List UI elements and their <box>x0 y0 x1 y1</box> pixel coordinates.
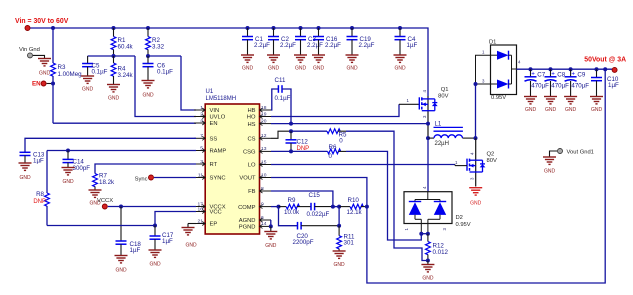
svg-text:GND: GND <box>334 262 346 268</box>
diode D2 0.95V <box>404 186 471 234</box>
svg-text:C9: C9 <box>577 72 585 79</box>
pin EP 21 of U1 <box>194 218 217 227</box>
svg-text:U1: U1 <box>206 89 214 95</box>
wire R3 to EN node <box>51 76 55 123</box>
ground R7 <box>89 190 102 207</box>
svg-text:+: + <box>551 70 555 77</box>
svg-text:470µF: 470µF <box>551 83 569 90</box>
ground C5 <box>81 76 94 93</box>
svg-text:GND: GND <box>142 93 154 99</box>
svg-text:14: 14 <box>261 221 267 227</box>
node VOUT R10 junction <box>365 205 369 209</box>
svg-text:2.2µF: 2.2µF <box>307 42 323 49</box>
svg-text:Vin Gnd: Vin Gnd <box>19 47 40 53</box>
svg-text:2.2µF: 2.2µF <box>325 42 341 49</box>
svg-text:D2: D2 <box>456 215 463 221</box>
svg-text:80V: 80V <box>487 158 497 164</box>
svg-text:GND: GND <box>313 66 325 72</box>
capacitor C14 300pF <box>63 151 91 172</box>
ground C17 <box>149 250 162 268</box>
capacitor C3 2.2µF <box>295 26 323 55</box>
capacitor C6 0.1uF <box>143 56 174 81</box>
capacitor C1 2.2µF <box>242 26 270 55</box>
svg-text:2.2µF: 2.2µF <box>254 42 270 49</box>
svg-text:1: 1 <box>200 105 203 111</box>
svg-text:GND: GND <box>185 243 197 249</box>
capacitor C2 2.2µF <box>268 26 296 55</box>
capacitor C7 470uF <box>525 67 550 96</box>
node FB COMP junction <box>331 205 341 209</box>
wire VCC net <box>155 212 196 226</box>
svg-text:8: 8 <box>261 186 264 192</box>
svg-text:GND: GND <box>346 66 358 72</box>
svg-text:3.32: 3.32 <box>152 44 165 51</box>
ground EP <box>182 228 197 249</box>
wire CS jog <box>271 129 293 138</box>
wire EP to ground <box>188 224 196 228</box>
svg-text:C15: C15 <box>309 192 321 199</box>
pin CSG 13 of U1 <box>243 146 271 155</box>
capacitor C17 1uF <box>150 226 174 251</box>
svg-text:470µF: 470µF <box>571 83 589 90</box>
wire Q2 gate lead <box>455 165 467 166</box>
svg-text:60.4k: 60.4k <box>118 44 134 51</box>
resistor R10 12.1k <box>339 197 367 216</box>
svg-text:2.2µF: 2.2µF <box>359 42 375 49</box>
wire LO to Q2 gate <box>271 164 455 166</box>
label Vin = 30V to 60V <box>15 18 69 25</box>
svg-text:AGND: AGND <box>239 218 256 224</box>
svg-text:GND: GND <box>565 107 577 113</box>
svg-text:0.012: 0.012 <box>433 249 449 256</box>
label VCCX <box>97 198 113 204</box>
wire VIN to pin 1 <box>181 56 196 110</box>
svg-text:GND: GND <box>149 262 161 268</box>
svg-text:+: + <box>571 70 575 77</box>
pin PGND 14 of U1 <box>239 221 271 230</box>
terminal EN <box>41 81 51 86</box>
pin EN 4 of U1 <box>194 118 218 127</box>
svg-text:2: 2 <box>200 111 203 117</box>
wire Vout Gnd1 to ground <box>550 151 558 157</box>
svg-text:4: 4 <box>200 118 203 124</box>
terminal Vin Gnd <box>19 47 40 58</box>
svg-text:18: 18 <box>261 105 267 111</box>
svg-text:GND: GND <box>265 243 277 249</box>
svg-text:1.00Meg: 1.00Meg <box>58 71 83 78</box>
svg-text:470µF: 470µF <box>531 83 549 90</box>
svg-text:R3: R3 <box>58 64 66 71</box>
ground C6 <box>142 81 155 99</box>
wire R8 to VCC junction <box>47 224 157 228</box>
capacitor C9 470uF <box>565 67 590 96</box>
net Vin input bus <box>28 28 429 138</box>
pin SYNC 11 of U1 <box>194 172 226 181</box>
svg-text:FB: FB <box>248 189 256 195</box>
wire VCCX to pin 17 <box>108 205 196 209</box>
svg-text:GND: GND <box>82 87 94 93</box>
svg-text:Vout Gnd1: Vout Gnd1 <box>567 149 594 155</box>
capacitor C13 1uF <box>20 152 45 165</box>
svg-text:GND: GND <box>470 201 482 207</box>
svg-text:3: 3 <box>200 159 203 165</box>
svg-text:0.1µF: 0.1µF <box>275 95 291 102</box>
ground AGND PGND <box>264 232 277 250</box>
ground Vin Gnd <box>38 59 51 77</box>
svg-text:GND: GND <box>108 96 120 102</box>
svg-text:SYNC: SYNC <box>210 176 226 182</box>
pin HB 18 of U1 <box>247 105 271 114</box>
svg-text:CSG: CSG <box>243 150 256 156</box>
svg-text:GND: GND <box>115 268 127 274</box>
svg-text:UVLO: UVLO <box>210 115 226 121</box>
svg-text:6: 6 <box>261 215 264 221</box>
pin RAMP 5 of U1 <box>194 145 226 154</box>
svg-text:GND: GND <box>242 66 254 72</box>
svg-text:GND: GND <box>19 175 31 181</box>
label Sync <box>135 176 148 182</box>
pin VCCX 17 of U1 <box>194 201 226 210</box>
svg-text:D1: D1 <box>489 40 496 46</box>
svg-text:0.1µF: 0.1µF <box>157 69 173 76</box>
wire SS net <box>25 138 196 152</box>
node R12 bottom <box>426 259 430 265</box>
resistor R8 DNP <box>33 151 49 226</box>
capacitor C4 1µF <box>395 26 418 55</box>
ground C1 <box>241 55 254 72</box>
wire HO to Q1 gate <box>271 104 419 116</box>
svg-text:LO: LO <box>248 163 256 169</box>
wire VOUT sense loop <box>271 69 605 283</box>
svg-text:10.0k: 10.0k <box>284 209 300 216</box>
svg-text:16: 16 <box>198 206 204 212</box>
svg-text:15: 15 <box>261 159 267 165</box>
net Vout rail <box>517 68 615 70</box>
svg-text:20: 20 <box>261 118 267 124</box>
ground Vout Gnd1 <box>543 157 556 175</box>
svg-text:22µH: 22µH <box>435 141 449 147</box>
node UVLO divider junction <box>88 54 135 58</box>
pin VCC 16 of U1 <box>194 206 222 215</box>
svg-text:+: + <box>531 70 535 77</box>
ground C9 <box>564 97 577 113</box>
svg-text:EN: EN <box>32 81 41 88</box>
svg-text:GND: GND <box>591 107 603 113</box>
svg-text:50Vout @ 3A: 50Vout @ 3A <box>584 57 626 64</box>
svg-text:R10: R10 <box>348 197 360 204</box>
pin VIN 1 of U1 <box>194 105 219 114</box>
svg-text:HS: HS <box>247 122 255 128</box>
svg-text:VCC: VCC <box>210 210 222 216</box>
wire FB net <box>271 191 333 207</box>
resistor R9 10.0k <box>279 197 312 216</box>
ground C13 <box>19 163 32 181</box>
terminal 50Vout <box>612 67 617 72</box>
node L1 left <box>426 136 430 140</box>
capacitor C18 1uF <box>116 207 142 256</box>
svg-text:C7: C7 <box>537 72 545 79</box>
svg-text:VIN: VIN <box>210 108 220 114</box>
op-amp U1 LM5118MH controller <box>205 89 259 234</box>
svg-text:0: 0 <box>329 153 333 160</box>
pin HO 19 of U1 <box>247 111 271 120</box>
svg-text:0.1µF: 0.1µF <box>92 69 108 76</box>
ground C2 <box>267 55 280 72</box>
svg-text:GND: GND <box>525 107 537 113</box>
svg-text:GND: GND <box>62 179 74 185</box>
inductor L1 22uH <box>428 121 476 147</box>
resistor R4 3.24k <box>111 56 133 85</box>
wire CSG to R12 top <box>346 151 421 240</box>
svg-text:11: 11 <box>198 172 203 178</box>
capacitor C10 1uF <box>591 67 619 96</box>
svg-text:C11: C11 <box>275 77 286 84</box>
svg-text:1µF: 1µF <box>162 238 173 245</box>
terminal VCCX <box>102 204 107 209</box>
svg-text:VOUT: VOUT <box>239 176 256 182</box>
pin COMP 9 of U1 <box>238 201 271 210</box>
node D2 anodes <box>419 232 430 236</box>
wire C11 to HS node <box>282 89 291 124</box>
ground C14 <box>62 168 75 186</box>
capacitor C11 0.1uF <box>275 77 291 102</box>
ground C8 <box>544 97 557 113</box>
resistor R2 3.32 <box>146 26 165 56</box>
wire CS to R12 bottom <box>346 131 428 260</box>
wire D1 anodes to switch node <box>474 55 491 138</box>
svg-text:300pF: 300pF <box>73 165 91 172</box>
transistor Q2 80V <box>455 138 497 186</box>
svg-text:2200pF: 2200pF <box>293 239 314 246</box>
svg-text:1µF: 1µF <box>33 158 44 165</box>
svg-text:0: 0 <box>339 138 343 145</box>
wire UVLO to pin 2 <box>135 56 196 117</box>
svg-text:5: 5 <box>200 145 203 151</box>
ground C7 <box>524 97 537 113</box>
svg-text:0.022µF: 0.022µF <box>307 211 330 218</box>
svg-text:13: 13 <box>261 146 267 152</box>
svg-text:COMP: COMP <box>238 205 256 211</box>
svg-text:PGND: PGND <box>239 225 256 231</box>
ground C10 <box>590 97 603 113</box>
svg-text:HO: HO <box>247 115 256 121</box>
capacitor C12 DNP <box>286 131 310 152</box>
diode D1 0.95V <box>482 40 521 102</box>
node C20 R11 junction <box>337 207 341 228</box>
svg-text:Q2: Q2 <box>487 152 495 158</box>
svg-text:Q1: Q1 <box>441 87 449 93</box>
node feedback tap <box>603 67 607 71</box>
svg-text:GND: GND <box>295 66 307 72</box>
wire RT net <box>95 164 196 174</box>
svg-text:R8: R8 <box>36 191 44 198</box>
ground R4 <box>107 85 120 102</box>
resistor R3 1.00Meg <box>51 63 83 78</box>
svg-text:GND: GND <box>394 66 406 72</box>
node VIN filter junction <box>146 54 181 58</box>
svg-text:GND: GND <box>422 276 434 282</box>
svg-text:VCCX: VCCX <box>97 198 113 204</box>
ground R12 <box>421 265 434 282</box>
ground Q2 source power <box>469 188 482 207</box>
resistor R11 301 <box>337 226 355 251</box>
pin HS 20 of U1 <box>247 118 271 127</box>
pin VOUT 10 of U1 <box>239 172 271 181</box>
wire CSG from pin 13 <box>271 149 293 153</box>
svg-text:GND: GND <box>39 71 51 77</box>
svg-text:1µF: 1µF <box>608 82 619 89</box>
svg-text:12: 12 <box>261 133 267 139</box>
ground C18 <box>115 256 128 274</box>
svg-text:R9: R9 <box>288 197 296 204</box>
svg-text:C12: C12 <box>297 139 309 146</box>
node switch right <box>474 136 478 140</box>
svg-text:HB: HB <box>247 108 255 114</box>
wire HB to C11 <box>271 89 278 110</box>
wire Vin Gnd to ground <box>33 55 45 58</box>
svg-text:EP: EP <box>210 222 218 228</box>
wire RAMP net <box>47 149 196 153</box>
resistor R1 60.4k <box>111 26 133 56</box>
pin CS 12 of U1 <box>247 133 271 142</box>
resistor R7 18.2k <box>93 173 115 191</box>
terminal Vin <box>25 26 30 31</box>
svg-text:19: 19 <box>261 111 267 117</box>
resistor R6 0 <box>291 144 346 160</box>
wire L1 node to D2 <box>427 138 429 192</box>
pin LO 15 of U1 <box>248 159 271 168</box>
svg-text:L1: L1 <box>435 121 442 127</box>
capacitor C8 470uF <box>545 67 570 96</box>
svg-text:3.24k: 3.24k <box>118 72 134 79</box>
resistor R5 0 <box>291 129 347 145</box>
terminal Sync <box>149 175 154 180</box>
pin RT 3 of U1 <box>194 159 218 168</box>
ground R11 <box>333 251 346 268</box>
label EN <box>32 81 41 88</box>
svg-text:18.2k: 18.2k <box>99 179 115 186</box>
terminal Vout Gnd1 <box>558 149 594 156</box>
svg-text:DNP: DNP <box>33 199 46 205</box>
svg-text:7: 7 <box>200 133 203 139</box>
ground C16 <box>312 55 325 72</box>
svg-text:0.95V: 0.95V <box>491 95 506 101</box>
svg-text:Vin = 30V to 60V: Vin = 30V to 60V <box>15 18 69 25</box>
pin FB 8 of U1 <box>248 186 271 195</box>
capacitor C19 2.2µF <box>347 26 375 55</box>
capacitor C5 0.1uF <box>82 56 108 76</box>
svg-text:GND: GND <box>544 169 556 175</box>
svg-text:RT: RT <box>210 162 218 168</box>
svg-text:9: 9 <box>261 201 264 207</box>
resistor R12 0.012 <box>426 234 449 261</box>
svg-text:GND: GND <box>268 66 280 72</box>
wire AGND PGND to ground <box>269 220 273 232</box>
wire COMP from pin 9 <box>271 205 281 209</box>
wire EN to pin 4 <box>53 122 196 124</box>
svg-text:GND: GND <box>545 107 557 113</box>
svg-text:Sync: Sync <box>135 176 148 182</box>
capacitor C20 2200pF <box>279 207 340 246</box>
wire Sync to pin 11 <box>154 177 196 179</box>
ground C19 <box>346 55 359 72</box>
wire R3 branch from bus <box>51 26 55 63</box>
label 50Vout at 3A <box>584 57 626 64</box>
capacitor C16 2.2µF <box>313 26 341 55</box>
svg-text:RAMP: RAMP <box>210 149 227 155</box>
svg-text:R6: R6 <box>329 144 337 151</box>
svg-text:80V: 80V <box>438 94 448 100</box>
svg-text:301: 301 <box>344 239 355 246</box>
svg-text:10: 10 <box>261 172 267 178</box>
svg-text:2.2µF: 2.2µF <box>280 42 296 49</box>
svg-text:21: 21 <box>198 218 204 224</box>
svg-text:LM5118MH: LM5118MH <box>206 96 237 102</box>
svg-text:1µF: 1µF <box>130 247 141 254</box>
capacitor C15 0.022uF <box>307 192 333 218</box>
transistor Q1 80V <box>407 87 449 118</box>
ground C4 <box>394 55 407 72</box>
pin SS 7 of U1 <box>194 133 217 142</box>
pin AGND 6 of U1 <box>239 215 271 224</box>
svg-text:C8: C8 <box>557 72 565 79</box>
ground C3 <box>294 55 307 72</box>
svg-text:0.95V: 0.95V <box>456 222 471 228</box>
svg-text:EN: EN <box>210 121 218 127</box>
svg-text:CS: CS <box>247 137 255 143</box>
svg-text:1µF: 1µF <box>407 42 418 49</box>
svg-text:SS: SS <box>210 137 218 143</box>
wire HS switch node <box>271 122 430 126</box>
pin UVLO 2 of U1 <box>194 111 226 120</box>
svg-text:12.1k: 12.1k <box>347 209 363 216</box>
